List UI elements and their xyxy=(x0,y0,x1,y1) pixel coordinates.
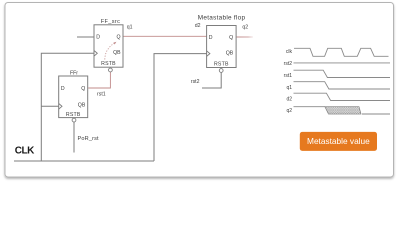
svg-text:D: D xyxy=(96,34,100,40)
svg-text:rst1: rst1 xyxy=(97,91,106,97)
svg-text:clk: clk xyxy=(286,49,293,55)
svg-text:q2: q2 xyxy=(286,108,292,114)
svg-text:QB: QB xyxy=(113,50,121,56)
svg-text:q1: q1 xyxy=(127,25,133,31)
svg-text:rst1: rst1 xyxy=(284,73,293,79)
svg-text:RSTB: RSTB xyxy=(101,61,116,67)
svg-text:D: D xyxy=(61,86,65,92)
svg-text:d2: d2 xyxy=(195,23,201,29)
svg-text:Q: Q xyxy=(229,35,233,41)
svg-text:Metastable value: Metastable value xyxy=(307,136,370,146)
svg-text:D: D xyxy=(209,35,213,41)
svg-text:RSTB: RSTB xyxy=(66,112,81,118)
svg-text:Q: Q xyxy=(81,86,85,92)
svg-text:PoR_rst: PoR_rst xyxy=(78,136,100,142)
svg-text:q1: q1 xyxy=(286,85,292,91)
svg-text:Q: Q xyxy=(117,34,121,40)
svg-text:rst2: rst2 xyxy=(284,61,293,67)
svg-text:QB: QB xyxy=(226,50,234,56)
svg-text:Metastable flop: Metastable flop xyxy=(198,15,246,22)
svg-text:QB: QB xyxy=(78,103,86,109)
svg-text:FF_src: FF_src xyxy=(101,19,121,25)
svg-text:FFr: FFr xyxy=(70,70,78,76)
svg-text:d2: d2 xyxy=(286,96,292,102)
svg-text:RSTB: RSTB xyxy=(214,62,229,68)
svg-text:CLK: CLK xyxy=(15,146,35,157)
svg-text:rst2: rst2 xyxy=(191,79,200,85)
svg-text:q2: q2 xyxy=(242,24,248,30)
